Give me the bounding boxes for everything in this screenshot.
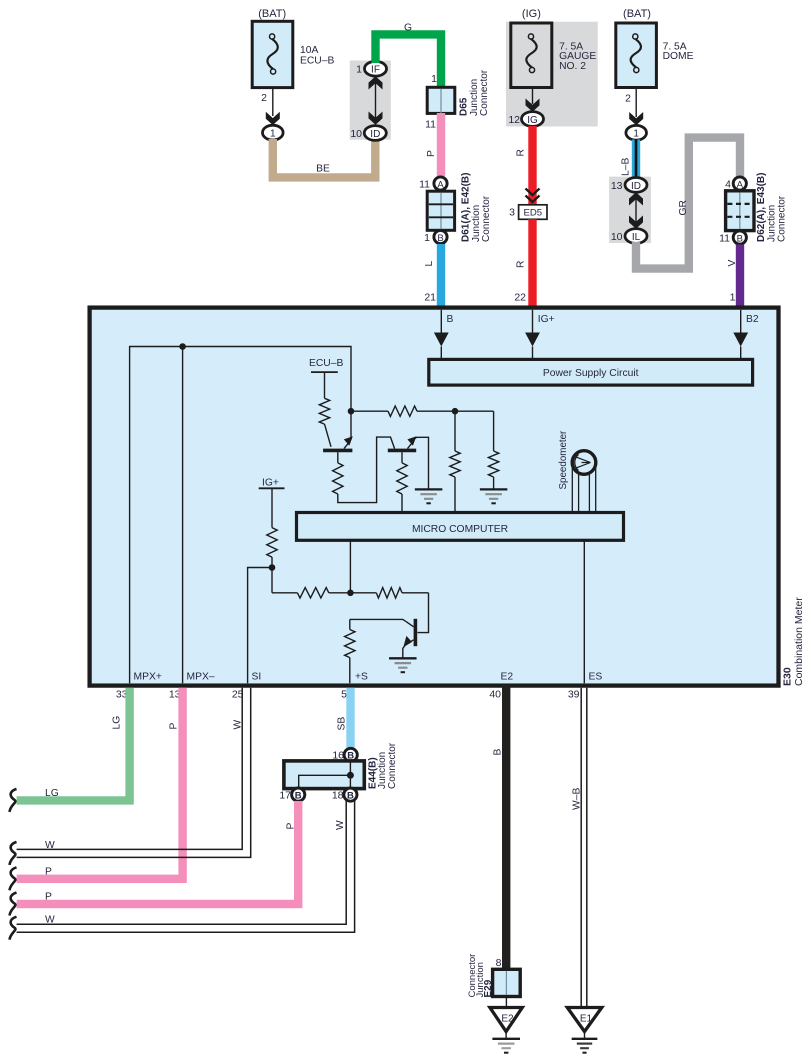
arrow into circle IG [526,99,540,112]
label D62(A), E43(B) Junction Connector [756,173,788,242]
svg-text:V: V [727,260,738,267]
svg-text:1: 1 [424,232,430,244]
connector pin circle B18 [344,788,357,801]
svg-text:IG+: IG+ [538,314,555,325]
svg-text:P: P [45,892,52,903]
node B2 top pin [741,310,759,333]
svg-text:LG: LG [111,716,122,730]
label D65 Junction Connector [459,69,491,116]
svg-text:1: 1 [633,129,639,140]
connector pin circle B (D62) [733,231,746,244]
wire break at W row5 [10,917,17,940]
wire P from E44 pin 17 (pink) [17,801,299,904]
wire micro computer to ES pin [583,540,585,683]
wire W-B (double line) from ES pin [581,688,587,1008]
svg-text:MICRO COMPUTER: MICRO COMPUTER [412,524,508,535]
svg-text:5: 5 [341,689,347,701]
svg-text:11: 11 [419,178,430,190]
svg-text:R: R [516,261,527,268]
svg-text:G: G [404,23,412,34]
ground symbol E1 [584,1032,586,1039]
svg-text:+S: +S [355,672,368,683]
wire LG (light green) [17,688,130,801]
wire R (red) lower segment [528,219,536,306]
svg-text:Connector: Connector [467,954,478,998]
junction connector D62(A), E43(B) [726,191,754,231]
fuse 7.5A GAUGE NO.2 [511,23,552,88]
svg-text:3: 3 [509,207,515,219]
node junction MPX- rail [179,343,186,350]
label L-B [621,158,632,176]
wire R7 to dot3 [271,557,273,593]
svg-text:ID: ID [370,129,380,140]
resistor R9 (right horizontal) [350,588,428,598]
wire dot3 to SI pin [248,568,272,684]
svg-text:L: L [424,261,435,267]
ground at Q2 [415,488,443,490]
resistor R10 (+S) [345,619,355,683]
label Speedometer [558,430,569,490]
wire fuse IG to circle IG [532,88,534,105]
wire MPX+ internal [130,347,351,684]
node junction dot4 [347,590,354,597]
svg-text:18: 18 [332,789,344,801]
svg-text:IL: IL [632,232,641,243]
wire fuse ECU-B pin2 to connector 1 [272,88,274,116]
svg-text:W–B: W–B [572,788,583,810]
wire Q1 base loop to Q2 collector [338,437,395,503]
svg-text:Speedometer: Speedometer [558,430,569,490]
svg-text:E2: E2 [501,672,514,683]
svg-text:L–B: L–B [621,158,632,176]
svg-text:Connector: Connector [387,742,398,789]
diode at B2 [733,333,748,360]
svg-text:1: 1 [431,73,437,85]
svg-text:10: 10 [350,128,362,140]
svg-text:17: 17 [279,789,291,801]
svg-text:MPX–: MPX– [187,672,215,683]
combination meter E30 box [90,308,779,686]
label E29 Junction Connector [467,954,494,998]
svg-text:40: 40 [489,689,501,701]
label W vertical (pin18) [335,820,346,830]
svg-text:P: P [426,150,437,157]
svg-text:E2: E2 [501,1013,514,1024]
resistor R3 (between dots) [351,406,455,416]
label P vertical (MPX-) [169,723,180,730]
wire L-B (blue with black stripe) [632,139,640,178]
svg-text:ID: ID [631,181,641,192]
wire BE (beige) [273,139,376,177]
junction connector E29 [493,969,521,996]
svg-text:B: B [447,314,454,325]
svg-text:B: B [295,790,302,801]
svg-text:4: 4 [725,178,731,190]
ground at R6 [480,488,508,490]
fuse 7.5A DOME [616,23,657,88]
svg-text:1: 1 [730,291,736,303]
connector ED5 [519,205,547,220]
svg-text:DOME: DOME [663,51,694,62]
label LG vertical [111,716,122,730]
resistor R4 (Q2 base) [397,452,407,512]
wire GR (gray) [636,138,740,269]
svg-text:13: 13 [611,180,623,192]
label P [426,150,437,157]
label B vertical [493,749,504,756]
label W vertical (SI) [233,720,244,730]
label SB [337,717,348,731]
svg-text:IG+: IG+ [262,477,279,488]
wire MPX- internal [182,347,184,684]
pass-through arrows above ED5 [526,189,540,203]
svg-text:P: P [169,723,180,730]
connector pin circle ID (right) [625,178,647,193]
gray panel behind junction IF/ID [350,61,391,140]
node B top pin [441,310,453,333]
svg-text:10: 10 [611,231,623,243]
junction connector E44(B) [284,761,364,789]
svg-text:SB: SB [337,717,348,731]
wire W from E44 pin 18 (white, double line) [17,801,355,933]
resistor R8 (left horizontal) [272,588,350,598]
svg-text:2: 2 [625,93,631,105]
connector pin circle ID (left) [364,126,386,141]
svg-text:B: B [737,233,743,244]
resistor R1 (ECU-B) [319,398,329,424]
resistor R7 (IG+) [267,528,277,558]
wire Q2 emitter to ground [415,437,429,489]
transistor Q2 [388,436,417,450]
wire G (green) [376,34,442,89]
svg-text:Combination Meter: Combination Meter [793,597,805,686]
svg-text:2: 2 [261,92,267,104]
label L [424,261,435,267]
svg-text:ES: ES [589,672,603,683]
ground point E1 triangle [567,1008,602,1032]
wire dot1 to Q1 emitter [350,411,352,439]
Power Supply Circuit box [429,359,753,385]
junction connector D65 [427,87,455,113]
svg-text:ED5: ED5 [523,208,542,219]
svg-text:B: B [347,790,354,801]
svg-text:Power Supply Circuit: Power Supply Circuit [543,368,639,379]
diode at B [434,333,449,360]
svg-text:W: W [233,720,244,730]
svg-text:22: 22 [514,291,526,303]
transistor Q3 [403,619,415,648]
wire Q3 collector from +S node [350,619,406,621]
svg-text:NO. 2: NO. 2 [559,61,586,72]
diode at IG+ [525,333,540,360]
label GR [678,200,689,215]
label P vertical (pin17) [286,823,297,830]
svg-text:GR: GR [678,200,689,215]
svg-text:B: B [493,749,504,756]
wire Q3 emitter to ground [403,646,405,659]
wire micro computer to dot4 [349,540,351,593]
node junction dot2 [452,408,459,415]
connector pin circle B16 [344,748,357,761]
svg-text:W: W [45,915,55,926]
connector pin circle A (D62) [733,177,746,190]
gray panel behind junction ID/IL [609,177,651,244]
svg-text:1: 1 [270,129,276,140]
node ECU-B rail [309,358,343,398]
pin numbers bottom [116,689,580,701]
svg-text:LG: LG [45,788,59,799]
bidirectional arrow ID-IL [629,192,643,228]
wire SB (sky blue) [346,688,354,749]
svg-text:P: P [45,867,52,878]
svg-text:IG: IG [527,115,538,126]
fuse 10A ECU-B [252,21,293,87]
resistor R2 (Q1 base) [333,452,343,494]
arrow into circle 1 (DOME) [629,112,643,125]
svg-text:ECU–B: ECU–B [309,358,343,369]
label D61(A), E42(B) Junction Connector [461,173,493,242]
connector pin circle IF [365,61,387,76]
connector pin circle IL [625,229,647,244]
svg-text:Connector: Connector [777,195,788,242]
wire P from MPX- (pink) [17,688,183,879]
label V [727,260,738,267]
ground symbol E2 [505,1032,507,1039]
transistor Q1 [323,436,353,450]
wire W from SI (white, double line) [17,688,251,858]
svg-text:11: 11 [719,232,730,244]
svg-text:D62(A), E43(B): D62(A), E43(B) [756,173,767,242]
node IG+ rail [259,477,285,527]
arrow into connector 1 [266,112,280,125]
svg-text:R: R [516,149,527,156]
resistor R6 (to ground) [455,411,499,489]
svg-text:W: W [45,840,55,851]
resistor R5 (dot2 to micro computer) [450,411,460,512]
connector pin circle 1 (ECU-B) [263,125,284,140]
svg-text:B: B [437,233,443,244]
label R lower [516,261,527,268]
svg-text:1: 1 [356,64,362,76]
svg-text:W: W [335,820,346,830]
svg-text:E30: E30 [782,667,794,686]
connector pin circle B17 [292,788,305,801]
wire break at P row4 [10,893,17,916]
MICRO COMPUTER box [297,513,624,541]
connector pin circle A (D61) [434,177,447,190]
label E44(B) Junction Connector [368,742,399,789]
wire fuse DOME to circle 1 [635,88,637,118]
svg-text:11: 11 [425,119,436,131]
node IG+ top pin [533,310,555,333]
speedometer gauge [572,451,596,475]
svg-text:A: A [737,179,744,190]
wire break at P row3 [10,867,17,890]
svg-text:IF: IF [371,65,380,76]
svg-text:(BAT): (BAT) [258,8,286,20]
svg-text:21: 21 [424,291,436,303]
label W-B vertical [572,788,583,810]
wire break at LG [10,789,17,812]
svg-text:Connector: Connector [479,69,490,116]
node junction dot1 [348,408,355,415]
svg-text:MPX+: MPX+ [134,672,162,683]
wire break at W row2 [10,842,17,865]
wire R9 to Q3 base [418,593,429,633]
svg-text:8: 8 [496,957,502,969]
svg-text:B2: B2 [746,314,759,325]
svg-text:A: A [437,179,444,190]
svg-text:D61(A), E42(B): D61(A), E42(B) [461,173,472,242]
svg-text:E1: E1 [580,1013,593,1024]
svg-text:D65: D65 [459,97,470,116]
wire B (black) from E2 pin [502,685,510,969]
svg-text:(BAT): (BAT) [623,8,651,20]
wire R (red) upper segment [528,126,536,205]
svg-text:Connector: Connector [481,195,492,242]
svg-text:12: 12 [508,114,520,126]
pin labels bottom edge [134,672,603,683]
node junction dot3 [269,564,276,571]
wire V (violet) [736,245,744,307]
ground point E2 triangle [490,1008,522,1032]
ground at Q3 [389,657,417,659]
wire E29 to E2 ground [505,997,507,1008]
connector pin circle IG [522,112,544,127]
bidirectional arrow IF-ID [369,76,383,124]
label E30 Combination Meter [782,597,806,686]
speedometer leads [572,468,595,513]
wire L (blue) [437,244,445,306]
wire R1 to Q1 collector [325,424,332,447]
junction connector D61(A), E42(B) [427,191,454,230]
svg-text:(IG): (IG) [522,8,541,20]
connector pin circle B (D61) [434,230,447,243]
svg-text:P: P [286,823,297,830]
svg-text:SI: SI [252,672,262,683]
svg-text:BE: BE [316,163,330,174]
connector pin circle 1 (DOME) [626,125,647,140]
svg-text:39: 39 [568,689,580,701]
gray panel behind IG fuse [506,22,598,127]
wire P (pink) [437,113,445,177]
label R upper [516,149,527,156]
svg-text:ECU–B: ECU–B [300,55,334,66]
